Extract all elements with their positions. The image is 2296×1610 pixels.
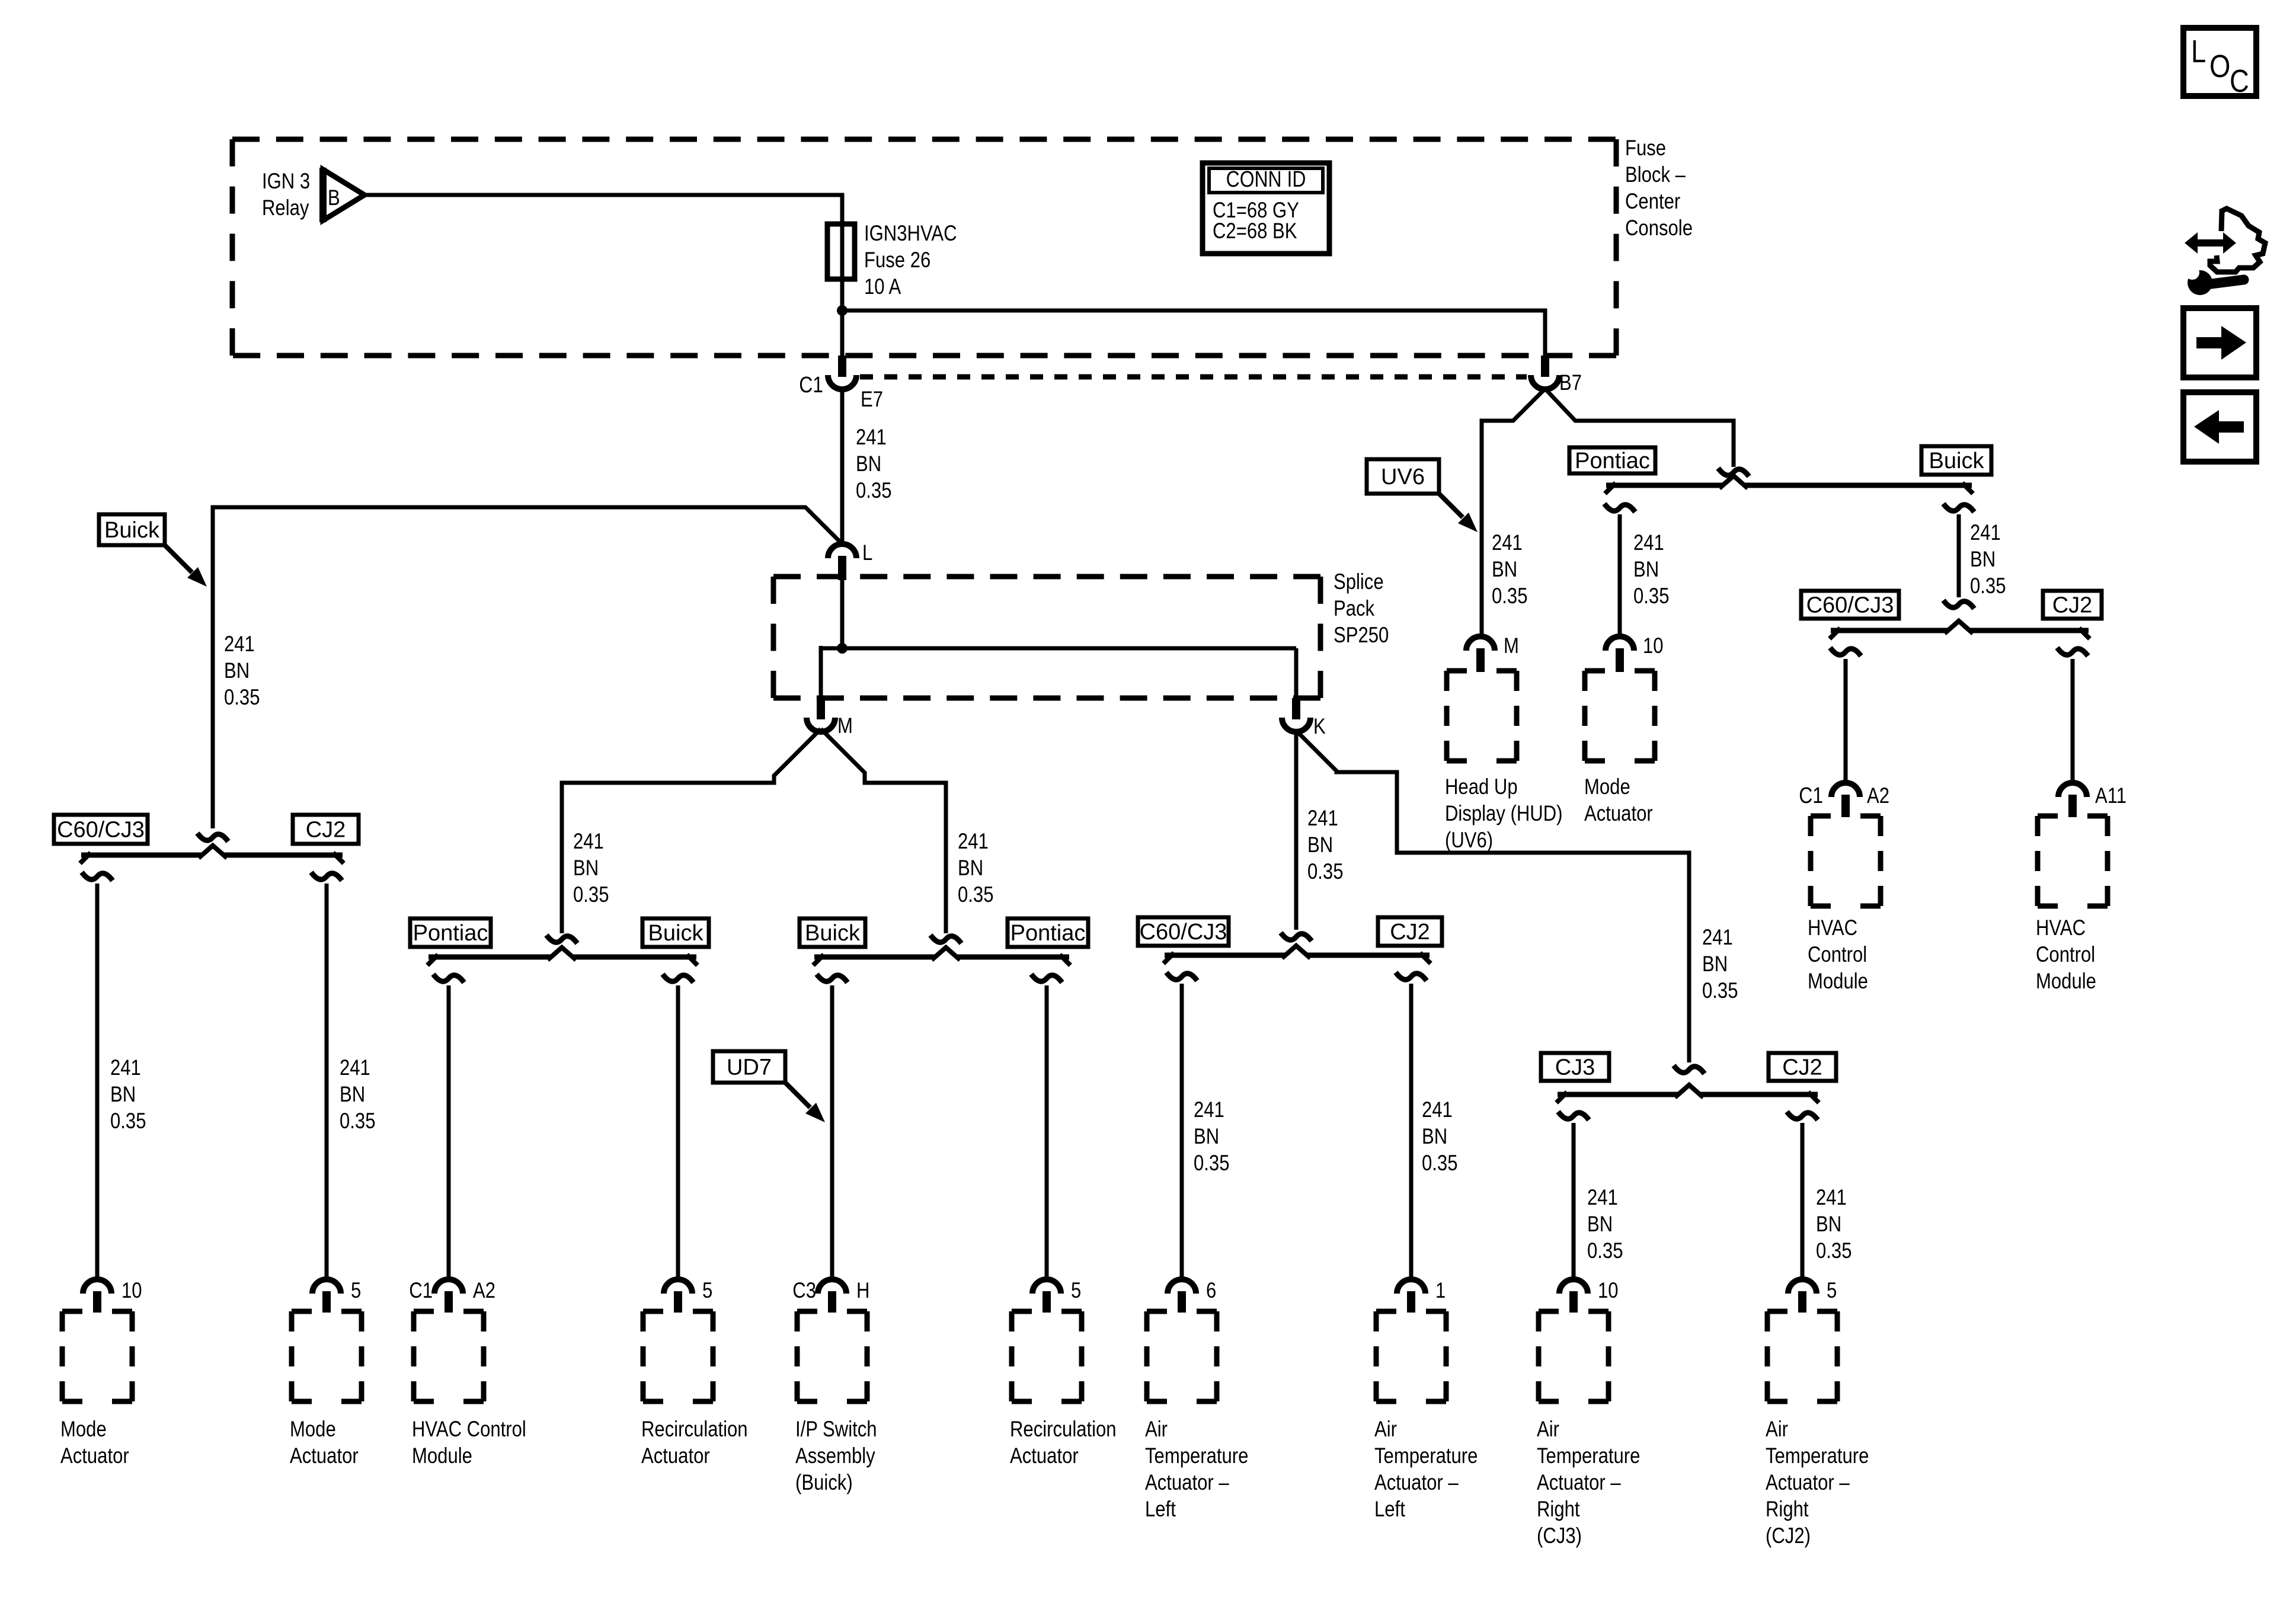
break squiggle (bus4 right drop)	[1396, 972, 1427, 981]
svg-text:B: B	[328, 186, 340, 210]
svg-text:SP250: SP250	[1334, 623, 1389, 648]
svg-text:Actuator: Actuator	[641, 1444, 710, 1468]
component Air Temp Actuator Right CJ3 (10)	[1559, 1279, 1588, 1294]
svg-text:241: 241	[1307, 806, 1338, 831]
svg-text:IGN 3: IGN 3	[262, 169, 310, 194]
wire bus4 to AirTemp L1	[1409, 984, 1414, 1281]
svg-text:Splice: Splice	[1334, 570, 1384, 594]
bus2 (Pontiac/Buick)	[428, 955, 696, 960]
wire bus3 to IP switch	[830, 985, 834, 1281]
break squiggle (Buick drop)	[1943, 504, 1974, 512]
wire bus1 to Mode Actuator 5	[325, 884, 329, 1281]
svg-text:241: 241	[110, 1056, 141, 1080]
svg-text:0.35: 0.35	[224, 686, 260, 710]
svg-text:H: H	[856, 1279, 869, 1303]
svg-text:Temperature: Temperature	[1145, 1444, 1248, 1468]
svg-text:IGN3HVAC: IGN3HVAC	[864, 222, 957, 246]
svg-text:1: 1	[1435, 1279, 1446, 1303]
svg-text:HVAC: HVAC	[2036, 916, 2086, 940]
svg-text:BN: BN	[1492, 558, 1517, 582]
svg-text:Module: Module	[412, 1444, 472, 1468]
svg-text:Actuator –: Actuator –	[1766, 1471, 1850, 1495]
svg-text:0.35: 0.35	[573, 883, 609, 907]
svg-text:HVAC Control: HVAC Control	[412, 1417, 526, 1442]
svg-text:241: 241	[573, 830, 604, 854]
svg-text:0.35: 0.35	[1422, 1151, 1457, 1176]
dotted connector boundary line	[860, 375, 1527, 380]
wire splice to M pin	[819, 646, 823, 699]
svg-text:241: 241	[856, 425, 887, 450]
svg-text:BN: BN	[1970, 548, 1996, 572]
splice pack SP250 (dashed box)	[773, 574, 1320, 580]
wire Buick vertical	[1957, 514, 1961, 597]
component Air Temp Actuator Left (1)	[1397, 1279, 1425, 1294]
svg-text:Actuator: Actuator	[1010, 1444, 1079, 1468]
connector C1 pin E7 (fuse block exit)	[838, 356, 846, 377]
svg-text:241: 241	[1633, 531, 1664, 555]
svg-text:Air: Air	[1766, 1417, 1788, 1442]
break squiggle (Mode Act drop)	[1604, 504, 1635, 512]
svg-text:Display (HUD): Display (HUD)	[1445, 802, 1563, 826]
svg-text:Air: Air	[1537, 1417, 1559, 1442]
svg-text:C: C	[2230, 63, 2249, 99]
svg-text:A11: A11	[2095, 784, 2126, 808]
label box Buick (bus2)	[642, 918, 709, 947]
wire bus2 to Recirc	[676, 985, 680, 1281]
svg-text:0.35: 0.35	[1492, 584, 1527, 609]
svg-text:BN: BN	[224, 659, 250, 683]
svg-text:Actuator –: Actuator –	[1145, 1471, 1229, 1495]
svg-text:HVAC: HVAC	[1808, 916, 1857, 940]
svg-text:Temperature: Temperature	[1766, 1444, 1869, 1468]
svg-text:Recirculation: Recirculation	[1010, 1417, 1117, 1442]
svg-text:Control: Control	[2036, 943, 2095, 967]
wire splice to K pin	[1294, 648, 1299, 699]
break squiggle (bus1 feed)	[197, 833, 228, 841]
svg-text:241: 241	[1587, 1186, 1618, 1210]
svg-text:BN: BN	[1702, 952, 1728, 977]
component Air Temp Actuator Left (6)	[1168, 1279, 1196, 1294]
relay IGN 3 (triangle B)	[323, 169, 364, 220]
svg-text:10: 10	[121, 1279, 142, 1303]
svg-text:M: M	[1504, 634, 1519, 658]
svg-text:Assembly: Assembly	[795, 1444, 876, 1468]
wire M left branch	[562, 729, 821, 933]
bus R1 (Pontiac/Buick)	[1606, 483, 1972, 488]
svg-text:CONN ID: CONN ID	[1226, 167, 1306, 191]
svg-text:BN: BN	[573, 856, 599, 881]
svg-text:Console: Console	[1625, 216, 1693, 241]
svg-text:Pack: Pack	[1334, 597, 1375, 621]
wire B7 right branch	[1545, 389, 1734, 467]
wire K to middle bus	[1294, 729, 1299, 930]
connector 10 (Mode Actuator)	[1606, 636, 1634, 651]
connector C1/A2 (HVAC control module)	[1831, 783, 1860, 797]
svg-text:Actuator: Actuator	[290, 1444, 359, 1468]
label box UD7 with arrow	[713, 1051, 785, 1083]
wire bus R2 to HVAC CM	[1844, 659, 1848, 784]
svg-text:B7: B7	[1559, 371, 1582, 395]
svg-text:241: 241	[1970, 521, 2001, 545]
bus3 (Buick/Pontiac)	[814, 955, 1069, 960]
svg-text:241: 241	[224, 632, 255, 657]
label box CJ2 (bus4)	[1378, 917, 1442, 946]
break squiggle (bus R3 left drop)	[1558, 1112, 1589, 1120]
svg-text:CJ2: CJ2	[1390, 920, 1430, 945]
component Recirculation Actuator #1 (5)	[664, 1279, 692, 1294]
break squiggle (bus1 right drop)	[311, 872, 342, 881]
label box C60/CJ3 (bus4)	[1138, 917, 1229, 946]
svg-text:Center: Center	[1625, 190, 1680, 214]
svg-text:6: 6	[1206, 1279, 1216, 1303]
break squiggle (bus2 right drop)	[663, 974, 693, 982]
svg-text:(CJ2): (CJ2)	[1766, 1524, 1811, 1548]
svg-text:BN: BN	[1422, 1125, 1447, 1149]
label box Pontiac (bus R1)	[1569, 447, 1655, 473]
svg-text:M: M	[837, 714, 853, 738]
Mode Actuator dashed box	[1585, 668, 1655, 674]
wire relay to fuse	[364, 195, 842, 225]
svg-text:UV6: UV6	[1381, 465, 1425, 489]
wire bus R3 to AirTemp R5	[1801, 1123, 1805, 1281]
svg-text:(Buick): (Buick)	[795, 1471, 853, 1495]
svg-text:Mode: Mode	[60, 1417, 107, 1442]
svg-text:241: 241	[340, 1056, 370, 1080]
svg-text:0.35: 0.35	[856, 479, 891, 503]
svg-text:Air: Air	[1374, 1417, 1397, 1442]
svg-text:0.35: 0.35	[1702, 979, 1738, 1003]
svg-text:241: 241	[958, 830, 989, 854]
break squiggle (A11 drop)	[2057, 648, 2088, 656]
bus R2 (C60/CJ3 / CJ2)	[1831, 628, 2089, 633]
break squiggle (bus R3 right drop)	[1787, 1112, 1818, 1120]
svg-text:C2=68 BK: C2=68 BK	[1213, 219, 1297, 244]
svg-text:0.35: 0.35	[958, 883, 993, 907]
wire bus R3 to AirTemp R10	[1572, 1123, 1576, 1281]
connector M (HUD)	[1466, 636, 1495, 651]
label box C60/CJ3 (bus R2)	[1801, 591, 1899, 619]
label box CJ2 (bus1)	[293, 815, 359, 844]
connector M (splice exit)	[817, 698, 825, 719]
svg-text:C60/CJ3: C60/CJ3	[1140, 920, 1227, 945]
svg-text:Fuse 26: Fuse 26	[864, 248, 930, 273]
svg-text:CJ3: CJ3	[1555, 1055, 1595, 1080]
CONN ID table	[1203, 163, 1329, 254]
svg-text:C60/CJ3: C60/CJ3	[1806, 593, 1894, 618]
svg-text:CJ2: CJ2	[1782, 1055, 1822, 1080]
break squiggle (bus R1 feed)	[1718, 468, 1749, 476]
svg-text:E7: E7	[861, 388, 883, 412]
svg-text:BN: BN	[1307, 833, 1333, 857]
svg-text:0.35: 0.35	[110, 1109, 146, 1134]
svg-text:Pontiac: Pontiac	[1575, 449, 1650, 473]
wire junction to C1 stub	[840, 311, 845, 356]
svg-text:Temperature: Temperature	[1374, 1444, 1478, 1468]
svg-text:0.35: 0.35	[1307, 860, 1343, 884]
svg-text:L: L	[862, 541, 872, 565]
icon car with double arrow and wrench	[2196, 239, 2226, 247]
svg-text:A2: A2	[1867, 784, 1889, 808]
component Recirculation Actuator #2 (5)	[1032, 1279, 1061, 1294]
wire bus4 to AirTemp L6	[1180, 984, 1184, 1281]
label box CJ3 (bus R3)	[1541, 1053, 1609, 1081]
svg-text:5: 5	[702, 1279, 712, 1303]
label box Buick (bus3)	[800, 918, 865, 947]
svg-text:0.35: 0.35	[1633, 584, 1669, 609]
svg-text:5: 5	[1827, 1279, 1837, 1303]
svg-text:241: 241	[1816, 1186, 1847, 1210]
svg-text:Buick: Buick	[104, 518, 160, 543]
break squiggle (bus4 left drop)	[1166, 972, 1197, 981]
svg-text:0.35: 0.35	[1587, 1239, 1623, 1263]
HVAC control module dashed box (CJ2)	[2038, 814, 2108, 819]
svg-text:Right: Right	[1766, 1497, 1809, 1522]
label box UV6 with arrow	[1367, 459, 1439, 494]
wire bus3 to Recirc 2	[1045, 985, 1049, 1281]
wire L to splice junction	[840, 580, 845, 648]
svg-text:C1: C1	[799, 372, 823, 397]
icon next page (right arrow box)	[2183, 308, 2256, 377]
svg-text:CJ2: CJ2	[306, 818, 346, 843]
label box Pontiac (bus3)	[1008, 918, 1088, 947]
break squiggle (bus3 right drop)	[1031, 974, 1062, 982]
svg-text:(UV6): (UV6)	[1445, 828, 1493, 853]
connector B7 (fuse block exit)	[1541, 356, 1549, 377]
svg-text:BN: BN	[856, 452, 881, 476]
svg-text:C60/CJ3: C60/CJ3	[57, 818, 145, 843]
svg-text:BN: BN	[1587, 1212, 1613, 1237]
svg-text:Pontiac: Pontiac	[1011, 921, 1086, 946]
break squiggle (bus4 feed)	[1281, 933, 1312, 941]
HVAC control module dashed box (C60/CJ3)	[1811, 814, 1881, 819]
splice internal bus wire	[821, 646, 1296, 651]
svg-text:Control: Control	[1808, 943, 1867, 967]
svg-text:Actuator –: Actuator –	[1374, 1471, 1459, 1495]
connector L (splice pack entry)	[828, 544, 856, 558]
break squiggle (bus2 feed)	[546, 935, 577, 943]
svg-text:0.35: 0.35	[1194, 1151, 1229, 1176]
svg-text:10 A: 10 A	[864, 275, 901, 299]
component HVAC Control Module bottom (C1/A2)	[434, 1279, 463, 1294]
svg-text:(CJ3): (CJ3)	[1537, 1524, 1582, 1548]
break squiggle (bus3 left drop)	[817, 974, 848, 982]
label box Pontiac (bus2)	[410, 918, 491, 947]
connector A11 (HVAC control module)	[2058, 783, 2087, 797]
component I/P Switch Assembly (C3/H)	[818, 1279, 846, 1294]
svg-text:BN: BN	[958, 856, 983, 881]
svg-text:Buick: Buick	[805, 921, 861, 946]
svg-text:I/P Switch: I/P Switch	[795, 1417, 877, 1442]
svg-text:K: K	[1313, 715, 1326, 739]
svg-text:Relay: Relay	[262, 196, 309, 220]
wire 241 BN 0.35 C1 to L	[840, 389, 845, 544]
svg-text:10: 10	[1643, 634, 1664, 658]
icon LOC box	[2183, 28, 2256, 96]
wire Buick branch (L to left bus)	[213, 507, 842, 828]
svg-text:Right: Right	[1537, 1497, 1580, 1522]
break squiggle (bus1 left drop)	[82, 872, 113, 881]
break squiggle (bus3 feed)	[930, 935, 961, 943]
splice junction dot	[837, 643, 848, 654]
label box C60/CJ3 (bus1)	[54, 815, 148, 844]
svg-text:241: 241	[1492, 531, 1523, 555]
connector K (splice exit)	[1292, 698, 1300, 719]
junction dot	[837, 305, 848, 316]
break squiggle (bus2 left drop)	[433, 974, 464, 982]
svg-text:C1: C1	[409, 1279, 433, 1303]
wire bus R1 to Mode Actuator	[1618, 514, 1622, 638]
svg-text:Actuator –: Actuator –	[1537, 1471, 1621, 1495]
svg-text:BN: BN	[1633, 558, 1659, 582]
icon previous page (left arrow box)	[2183, 392, 2256, 462]
svg-text:BN: BN	[1194, 1125, 1219, 1149]
label box Buick (bus R1)	[1921, 446, 1991, 475]
bus R3 (CJ3/CJ2)	[1558, 1092, 1818, 1097]
svg-text:Buick: Buick	[1929, 449, 1985, 473]
svg-text:BN: BN	[1816, 1212, 1841, 1237]
svg-text:O: O	[2209, 48, 2230, 84]
bus1 (C60/CJ3 / CJ2 left)	[81, 853, 343, 858]
svg-text:UD7: UD7	[727, 1055, 772, 1080]
svg-text:Actuator: Actuator	[1584, 802, 1653, 826]
wire junction to B7 stub	[842, 311, 1545, 356]
wire M right branch	[821, 729, 946, 933]
svg-text:10: 10	[1598, 1279, 1619, 1303]
svg-text:C3: C3	[792, 1279, 816, 1303]
wire bus R2 to HVAC CM 2	[2071, 659, 2075, 784]
component Mode Actuator #1 (connector 10)	[83, 1279, 111, 1294]
svg-text:Mode: Mode	[1584, 775, 1630, 799]
svg-text:241: 241	[1702, 926, 1733, 950]
break squiggle (C1/A2 drop)	[1830, 648, 1861, 656]
HUD dashed box	[1447, 668, 1517, 674]
svg-text:241: 241	[1194, 1098, 1224, 1122]
svg-text:Module: Module	[2036, 969, 2096, 994]
svg-text:BN: BN	[340, 1083, 365, 1107]
svg-text:BN: BN	[110, 1083, 136, 1107]
svg-text:L: L	[2191, 33, 2206, 69]
fuse F26 IGN3HVAC	[840, 224, 845, 279]
svg-text:Pontiac: Pontiac	[413, 921, 488, 946]
svg-text:Left: Left	[1374, 1497, 1405, 1522]
component Air Temp Actuator Right CJ2 (5)	[1788, 1279, 1817, 1294]
break squiggle (bus R3 feed)	[1674, 1065, 1705, 1074]
svg-text:CJ2: CJ2	[2052, 593, 2093, 618]
fuse block - center console (dashed box)	[232, 137, 1616, 142]
svg-text:241: 241	[1422, 1098, 1453, 1122]
svg-text:Head Up: Head Up	[1445, 775, 1518, 799]
svg-text:Fuse: Fuse	[1625, 136, 1666, 161]
wire B7 left branch to HUD	[1482, 389, 1545, 638]
svg-text:Left: Left	[1145, 1497, 1176, 1522]
component Mode Actuator #2 (connector 5)	[312, 1279, 341, 1294]
wire bus2 to HVAC CM	[447, 985, 451, 1281]
svg-text:0.35: 0.35	[1816, 1239, 1851, 1263]
svg-text:Temperature: Temperature	[1537, 1444, 1640, 1468]
svg-text:Recirculation: Recirculation	[641, 1417, 748, 1442]
svg-text:Mode: Mode	[290, 1417, 336, 1442]
svg-text:A2: A2	[473, 1279, 495, 1303]
bus4 (C60/CJ3 / CJ2 middle)	[1165, 953, 1430, 958]
break squiggle (bus R2 feed)	[1943, 600, 1974, 609]
wire K right branch	[1296, 731, 1689, 1062]
label box CJ2 (bus R3)	[1769, 1053, 1836, 1081]
label box CJ2 (bus R2)	[2043, 591, 2102, 619]
wire fuse to junction	[840, 279, 845, 312]
svg-text:5: 5	[1071, 1279, 1081, 1303]
svg-text:Block –: Block –	[1625, 163, 1686, 187]
svg-text:0.35: 0.35	[1970, 574, 2006, 598]
svg-text:0.35: 0.35	[340, 1109, 375, 1134]
svg-text:Air: Air	[1145, 1417, 1168, 1442]
label box Buick with arrow	[99, 514, 165, 545]
svg-text:Module: Module	[1808, 969, 1868, 994]
svg-text:5: 5	[351, 1279, 361, 1303]
wire bus1 to Mode Actuator 10	[95, 884, 100, 1281]
svg-text:C1: C1	[1799, 783, 1823, 808]
svg-text:Buick: Buick	[648, 921, 704, 946]
svg-text:Actuator: Actuator	[60, 1444, 129, 1468]
